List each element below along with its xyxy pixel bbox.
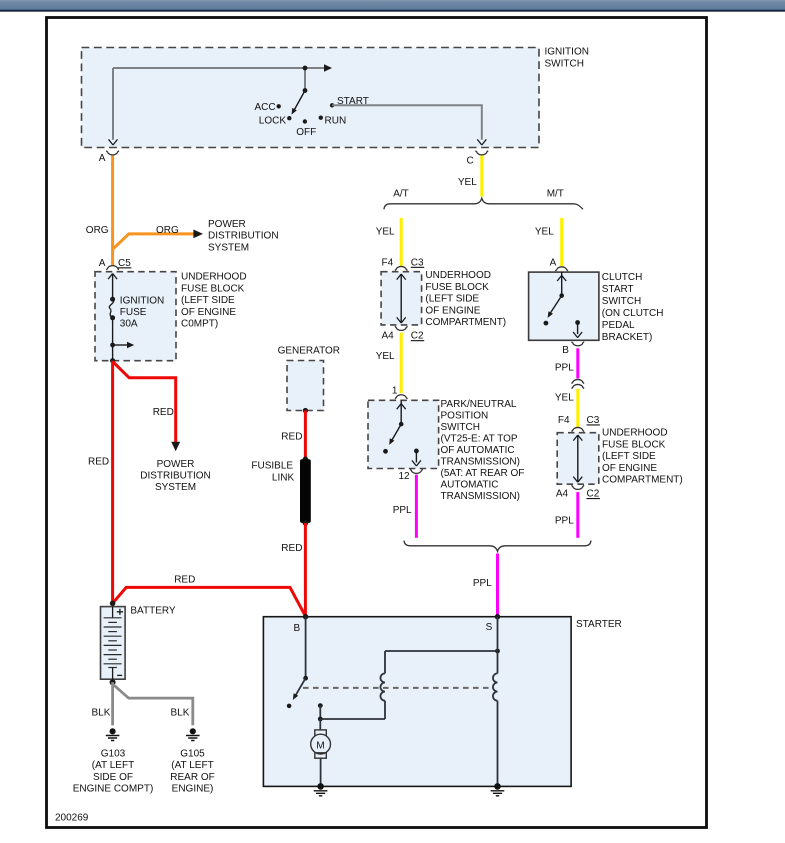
svg-text:UNDERHOOD: UNDERHOOD: [602, 428, 668, 439]
svg-text:A: A: [99, 258, 106, 269]
svg-text:COMPARTMENT): COMPARTMENT): [425, 317, 506, 328]
svg-text:FUSIBLE: FUSIBLE: [251, 461, 293, 472]
output wire to pin B: [577, 323, 579, 335]
wire hold-in winding to ground: [497, 701, 499, 787]
wire BLK battery to G103: [111, 682, 114, 725]
junction node on S line: [495, 649, 500, 654]
ignition switch (dashed component box): [82, 48, 540, 148]
connector symbol at pin 1: [395, 395, 408, 399]
svg-text:GENERATOR: GENERATOR: [278, 346, 340, 357]
svg-text:BATTERY: BATTERY: [130, 605, 176, 616]
battery plates: [104, 618, 122, 668]
ground G105: [186, 728, 200, 740]
fixed contact node: [318, 703, 323, 708]
svg-text:A: A: [550, 258, 557, 269]
svg-text:DISTRIBUTION: DISTRIBUTION: [140, 470, 211, 481]
svg-text:A/T: A/T: [393, 189, 409, 200]
ground symbol (motor): [314, 791, 328, 796]
svg-text:C0MPT): C0MPT): [181, 319, 218, 330]
battery plus mark: [117, 609, 123, 615]
underhood fuse block (M/T path, dashed box): [557, 433, 599, 485]
underhood fuse block (A/T path, dashed box): [381, 272, 422, 325]
svg-text:BLK: BLK: [92, 707, 111, 718]
brace joining A/T and M/T purple wires: [404, 541, 591, 552]
wire PPL from clutch pin B: [576, 348, 579, 378]
arrowhead to power distribution system: [171, 442, 180, 451]
connector symbol at A/C5: [106, 266, 119, 270]
svg-text:POWER: POWER: [208, 219, 246, 230]
svg-text:A4: A4: [382, 331, 395, 342]
battery internal bottom lead: [112, 668, 114, 680]
connector symbol at A4: [395, 326, 408, 330]
svg-text:G105: G105: [180, 748, 205, 759]
svg-text:A4: A4: [556, 489, 569, 500]
svg-text:G103: G103: [101, 748, 126, 759]
svg-text:PEDAL: PEDAL: [602, 320, 635, 331]
ignition fuse 30A (fuse element): [110, 297, 115, 302]
output contact node: [414, 449, 419, 454]
svg-text:1: 1: [392, 386, 398, 397]
svg-text:FUSE BLOCK: FUSE BLOCK: [602, 439, 666, 450]
svg-text:OF ENGINE: OF ENGINE: [181, 307, 236, 318]
park/neutral position switch (dashed box): [368, 400, 439, 468]
wire RED generator to fusible link: [304, 411, 307, 460]
clutch switch pole node: [559, 293, 564, 298]
in-line splice (double connector): [571, 379, 584, 383]
svg-text:SWITCH: SWITCH: [545, 59, 584, 70]
contact ACC: [277, 104, 281, 108]
wire PPL to brace (M/T): [576, 492, 579, 538]
svg-text:M/T: M/T: [547, 189, 564, 200]
wire: bus down to pin A: [112, 68, 114, 140]
svg-text:C5: C5: [118, 258, 131, 269]
svg-text:(AT LEFT: (AT LEFT: [92, 760, 134, 771]
ground node (solenoid): [494, 783, 501, 790]
svg-text:YEL: YEL: [555, 393, 574, 404]
wire fixed contact to motor junction: [319, 706, 321, 719]
fusible link node (bottom): [303, 520, 309, 526]
junction on bus: [303, 66, 308, 71]
connector symbol at pin 12: [410, 469, 423, 473]
fuse block pass-through wire with arrows: [577, 436, 579, 482]
contact RUN: [319, 116, 323, 120]
svg-text:B: B: [294, 623, 301, 634]
brace splitting A/T and M/T paths: [384, 198, 583, 209]
mechanical linkage (dashed): [303, 687, 491, 689]
svg-text:POWER: POWER: [157, 459, 195, 470]
clutch start switch (solid box): [529, 272, 599, 340]
wire YEL from pin C to brace: [480, 156, 483, 197]
svg-text:YEL: YEL: [458, 177, 477, 188]
terminal node S: [495, 614, 500, 619]
svg-text:OF AUTOMATIC: OF AUTOMATIC: [441, 445, 515, 456]
svg-text:YEL: YEL: [535, 226, 554, 237]
wire YEL A/T branch: [400, 218, 403, 266]
wire RED fuse block to battery: [111, 361, 114, 604]
svg-text:M: M: [316, 741, 324, 752]
svg-text:(LEFT SIDE: (LEFT SIDE: [602, 451, 656, 462]
wire: START contact to pin C: [332, 105, 482, 140]
svg-text:ACC: ACC: [255, 102, 276, 113]
svg-text:A: A: [99, 153, 106, 164]
svg-text:(VT25-E: AT TOP: (VT25-E: AT TOP: [441, 434, 518, 445]
wire S terminal down: [497, 617, 499, 674]
clutch switch lever: [550, 296, 562, 314]
contact LOCK: [287, 116, 291, 120]
svg-text:PPL: PPL: [555, 363, 574, 374]
switch lever: [392, 424, 402, 440]
svg-text:ORG: ORG: [156, 225, 179, 236]
svg-text:POSITION: POSITION: [441, 411, 489, 422]
wire BLK battery to G105: [113, 684, 193, 725]
output wire to pin 12: [415, 451, 417, 463]
svg-text:(LEFT SIDE: (LEFT SIDE: [181, 295, 235, 306]
battery positive node: [110, 601, 116, 607]
svg-text:SWITCH: SWITCH: [441, 422, 480, 433]
wire YEL below splice: [576, 389, 579, 427]
svg-text:F4: F4: [382, 257, 394, 268]
svg-text:RUN: RUN: [325, 115, 347, 126]
svg-text:RED: RED: [88, 456, 109, 467]
svg-text:PPL: PPL: [555, 515, 574, 526]
svg-text:PARK/NEUTRAL: PARK/NEUTRAL: [441, 399, 517, 410]
pull-in winding (coil): [380, 651, 385, 719]
svg-text:SIDE OF: SIDE OF: [93, 772, 133, 783]
fusible link node (top): [303, 457, 309, 463]
node at fuse block output: [110, 358, 115, 363]
svg-text:C3: C3: [411, 257, 424, 268]
switch lever pointing to LOCK: [295, 91, 306, 110]
battery internal top lead: [112, 607, 114, 618]
junction to branch arrow: [110, 343, 115, 348]
wire ORG branch to power distribution: [113, 234, 194, 249]
connector symbol at F4 (M/T): [571, 427, 584, 431]
svg-text:RED: RED: [153, 407, 174, 418]
contact node (lever side): [383, 449, 388, 454]
svg-text:PPL: PPL: [473, 578, 492, 589]
svg-text:LINK: LINK: [272, 473, 295, 484]
connector symbol at pin B: [571, 342, 584, 346]
wire motor to ground: [320, 758, 322, 786]
svg-text:ENGINE): ENGINE): [172, 784, 214, 795]
svg-text:FUSE: FUSE: [120, 307, 147, 318]
svg-text:RED: RED: [174, 574, 195, 585]
svg-text:B: B: [562, 345, 569, 356]
wire ORG from pin A: [111, 156, 114, 266]
svg-text:START: START: [602, 284, 634, 295]
connector symbol at pin A: [106, 151, 119, 155]
svg-text:YEL: YEL: [376, 351, 395, 362]
wire junction to pull-in winding bottom: [320, 718, 385, 720]
fusible link: [300, 459, 311, 523]
switch input wire: [400, 400, 402, 424]
svg-text:AUTOMATIC: AUTOMATIC: [441, 480, 499, 491]
svg-text:(LEFT SIDE: (LEFT SIDE: [425, 294, 479, 305]
wire below fuse: [112, 318, 114, 361]
solenoid contact pivot node: [303, 676, 308, 681]
contact OFF: [303, 119, 307, 123]
wire PPL to starter S terminal: [496, 554, 499, 617]
generator output node: [303, 408, 308, 413]
svg-text:UNDERHOOD: UNDERHOOD: [181, 272, 247, 283]
connector symbol at clutch pin A: [555, 267, 568, 271]
svg-text:CLUTCH: CLUTCH: [602, 272, 643, 283]
svg-text:UNDERHOOD: UNDERHOOD: [425, 270, 491, 281]
clutch switch input wire: [561, 272, 563, 296]
connector symbol at A4 (M/T): [571, 485, 584, 489]
battery negative node: [110, 679, 116, 685]
svg-text:(5AT: AT REAR OF: (5AT: AT REAR OF: [441, 468, 525, 479]
svg-text:RED: RED: [281, 432, 302, 443]
svg-text:SWITCH: SWITCH: [602, 296, 641, 307]
svg-text:COMPARTMENT): COMPARTMENT): [602, 475, 683, 486]
svg-text:SYSTEM: SYSTEM: [155, 482, 196, 493]
arrowhead to power distribution system: [193, 230, 203, 239]
output contact node: [575, 320, 580, 325]
ground G103: [106, 728, 120, 740]
svg-text:YEL: YEL: [376, 226, 395, 237]
fuse block pass-through wire with arrows: [400, 275, 402, 323]
svg-text:FUSE BLOCK: FUSE BLOCK: [181, 283, 245, 294]
wire: switch pole drop: [304, 68, 306, 91]
svg-text:12: 12: [399, 471, 411, 482]
wire RED branch to power distribution: [113, 362, 176, 445]
wire YEL M/T branch: [560, 218, 563, 266]
contact START: [330, 103, 334, 107]
contact node (lever side): [544, 321, 549, 326]
switch pole node: [303, 88, 308, 93]
arrowhead on bus: [324, 64, 332, 71]
svg-text:OFF: OFF: [296, 127, 316, 138]
svg-text:C2: C2: [411, 331, 424, 342]
svg-text:TRANSMISSION): TRANSMISSION): [441, 491, 520, 502]
svg-text:ENGINE COMPT): ENGINE COMPT): [73, 784, 154, 795]
connector symbol at pin C: [475, 151, 488, 155]
svg-text:REAR OF: REAR OF: [170, 772, 214, 783]
svg-text:C: C: [467, 155, 474, 166]
battery minus mark: [117, 674, 122, 676]
ground node (motor): [317, 783, 324, 790]
svg-text:SYSTEM: SYSTEM: [208, 242, 249, 253]
wire winding top to S line: [385, 650, 498, 652]
svg-text:C3: C3: [587, 415, 600, 426]
motor junction node: [318, 717, 323, 722]
branch arrow inside fuse block: [113, 344, 128, 346]
solenoid contact lever: [296, 678, 306, 695]
wire motor junction to motor: [319, 719, 321, 730]
switch pole node: [399, 422, 404, 427]
battery: [101, 607, 126, 680]
ground symbol (solenoid): [491, 791, 505, 796]
wire RED fusible link to starter B: [304, 523, 307, 617]
wire from B to solenoid contact: [305, 617, 307, 679]
svg-text:ORG: ORG: [86, 225, 109, 236]
svg-text:BRACKET): BRACKET): [602, 332, 653, 343]
svg-text:S: S: [486, 622, 493, 633]
terminal node B: [303, 614, 308, 619]
starter motor M: [311, 730, 331, 758]
svg-text:BLK: BLK: [171, 707, 190, 718]
svg-text:200269: 200269: [55, 813, 89, 824]
svg-text:TRANSMISSION): TRANSMISSION): [441, 457, 520, 468]
wire into ignition fuse: [112, 274, 114, 299]
svg-text:FUSE BLOCK: FUSE BLOCK: [425, 282, 489, 293]
svg-text:IGNITION: IGNITION: [120, 296, 164, 307]
svg-text:LOCK: LOCK: [259, 116, 287, 127]
svg-text:OF ENGINE: OF ENGINE: [425, 305, 480, 316]
svg-text:PPL: PPL: [393, 505, 412, 516]
svg-text:OF ENGINE: OF ENGINE: [602, 463, 657, 474]
wire RED battery positive to starter B: [113, 587, 306, 616]
wire PPL from pin 12 to brace: [415, 475, 418, 538]
wire: battery feed bus inside ignition switch: [113, 67, 325, 69]
svg-text:F4: F4: [558, 415, 570, 426]
generator (dashed box): [287, 361, 324, 411]
svg-text:IGNITION: IGNITION: [545, 47, 589, 58]
starter (solid box): [263, 617, 571, 787]
svg-text:DISTRIBUTION: DISTRIBUTION: [208, 231, 279, 242]
connector symbol at F4: [395, 266, 408, 270]
svg-text:RED: RED: [281, 543, 302, 554]
svg-text:30A: 30A: [120, 319, 138, 330]
underhood fuse block (dashed box, ignition fuse): [95, 272, 176, 361]
contact node (lever side): [287, 704, 292, 709]
svg-text:STARTER: STARTER: [576, 619, 622, 630]
hold-in winding (coil): [493, 673, 498, 700]
svg-text:(ON CLUTCH: (ON CLUTCH: [602, 308, 664, 319]
wire YEL to park/neutral switch: [400, 333, 403, 394]
svg-text:(AT LEFT: (AT LEFT: [171, 760, 213, 771]
svg-text:C2: C2: [587, 489, 600, 500]
